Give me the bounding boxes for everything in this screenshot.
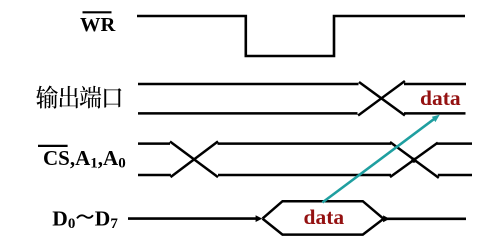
label CS overline <box>38 145 68 147</box>
bus OUT bottom rail right segment <box>404 112 466 115</box>
bus CS crossing 2 descending <box>390 142 439 178</box>
bus OUT top rail right segment <box>404 83 466 86</box>
bus CS bottom rail segment 3 <box>438 174 472 177</box>
signal D line right <box>387 218 466 221</box>
junction dot at CS crossing 2 <box>411 158 416 163</box>
bus OUT bottom rail left segment <box>138 112 358 115</box>
teal pointer arrowhead <box>432 115 440 123</box>
svg-text:data: data <box>420 86 461 110</box>
label char 出 <box>59 86 78 108</box>
svg-text:CS,A1,A0: CS,A1,A0 <box>43 146 126 172</box>
data hexagon bottom outline <box>263 219 384 235</box>
bus CS crossing 2 ascending <box>390 143 438 178</box>
svg-text:data: data <box>304 205 345 229</box>
bus CS bottom rail segment 1 <box>138 174 171 177</box>
bus OUT crossing descending <box>359 82 405 116</box>
bus CS top rail segment 2 <box>218 142 392 145</box>
bus CS crossing 1 descending <box>170 142 218 178</box>
arrowhead at hexagon right vertex <box>383 215 390 222</box>
label char 输 <box>36 86 58 109</box>
signal WR waveform <box>137 16 465 56</box>
bus CS crossing 1 ascending <box>171 141 219 177</box>
bus CS top rail segment 1 <box>138 142 170 145</box>
bus OUT crossing ascending <box>358 81 405 116</box>
data hexagon top outline <box>263 201 384 219</box>
label char 口 <box>104 88 121 108</box>
arrowhead at hexagon left vertex <box>256 215 263 222</box>
teal pointer line <box>322 117 436 202</box>
label char 端 <box>80 86 102 109</box>
label WR overline <box>83 11 112 13</box>
label D0~D7 tilde <box>77 215 93 218</box>
signal D line left <box>128 217 257 220</box>
svg-text:WR: WR <box>80 14 116 36</box>
bus CS bottom rail segment 2 <box>218 174 391 177</box>
bus OUT top rail left segment <box>138 83 359 86</box>
bus CS top rail segment 3 <box>437 142 472 145</box>
